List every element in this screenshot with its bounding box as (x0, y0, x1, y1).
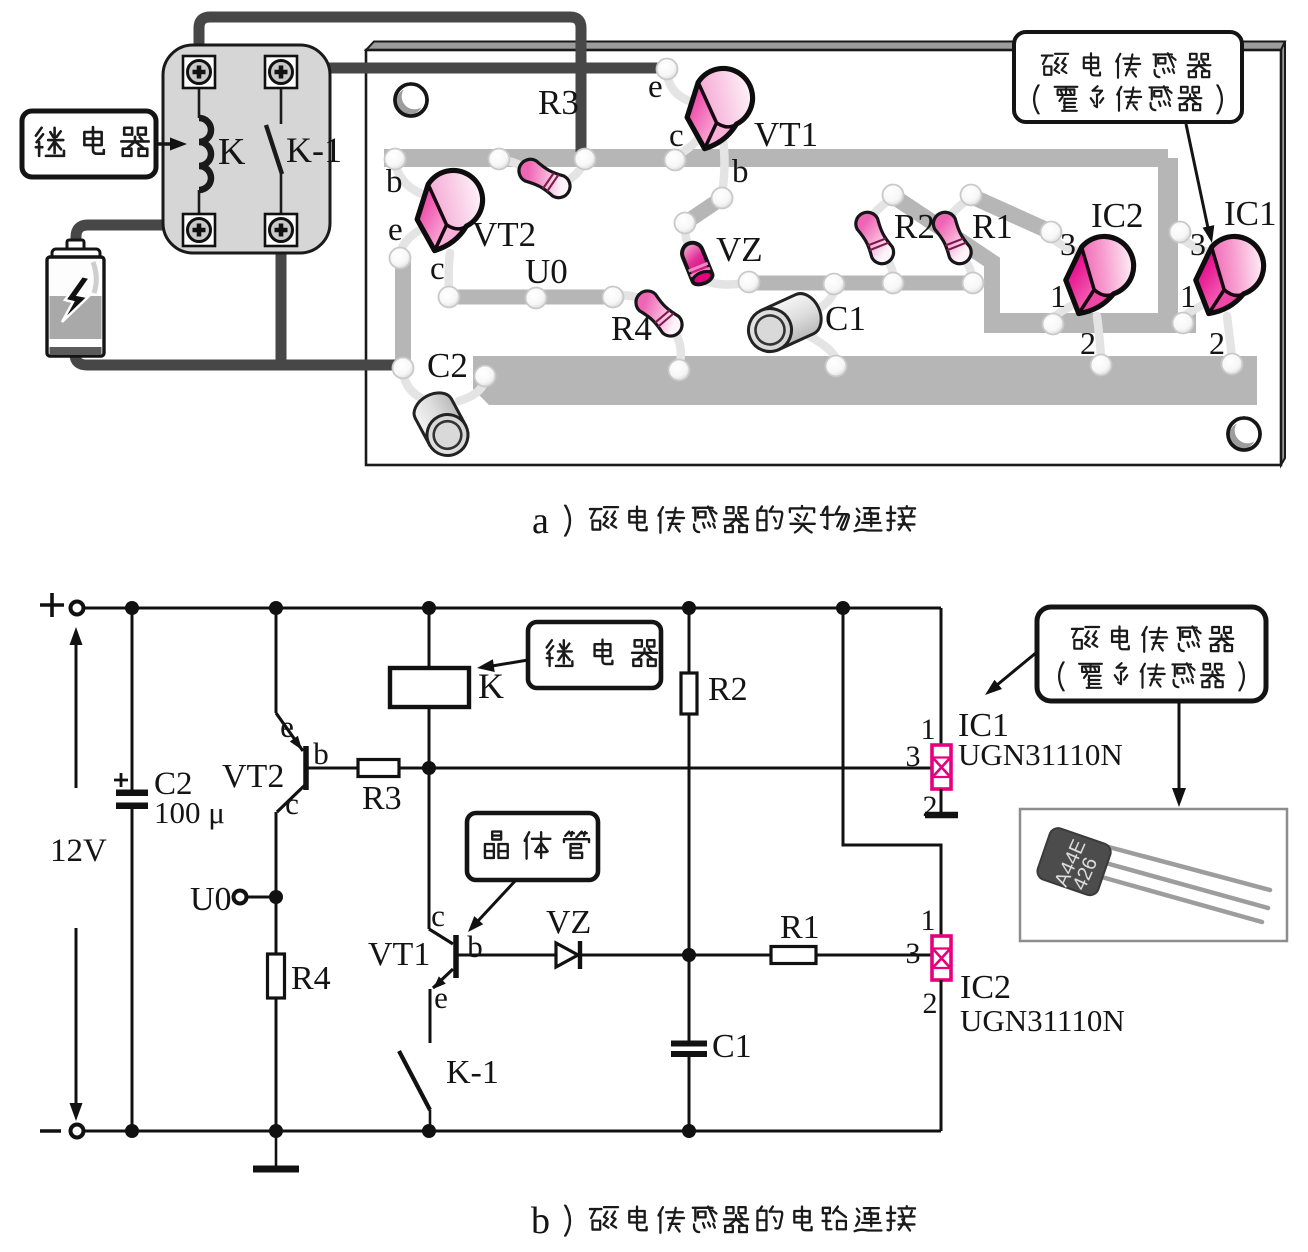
svg-text:e: e (388, 212, 403, 248)
svg-text:K-1: K-1 (286, 130, 342, 170)
svg-text:K: K (478, 666, 504, 706)
svg-text:U0: U0 (525, 252, 568, 291)
svg-text:UGN31110N: UGN31110N (958, 737, 1123, 772)
svg-text:K-1: K-1 (446, 1054, 499, 1091)
svg-text:R4: R4 (291, 960, 331, 997)
svg-text:e: e (648, 69, 663, 105)
svg-text:C1: C1 (712, 1028, 752, 1065)
svg-text:VZ: VZ (716, 230, 763, 269)
svg-text:R3: R3 (362, 780, 402, 817)
svg-text:12V: 12V (50, 833, 107, 869)
svg-text:VT1: VT1 (368, 936, 430, 973)
svg-text:R1: R1 (780, 909, 820, 946)
svg-text:2: 2 (1080, 325, 1096, 361)
svg-text:UGN31110N: UGN31110N (960, 1003, 1125, 1038)
svg-text:2: 2 (923, 987, 938, 1020)
svg-text:R4: R4 (611, 309, 652, 348)
svg-text:c: c (430, 251, 445, 287)
svg-text:c: c (285, 786, 299, 821)
svg-text:c: c (669, 118, 684, 154)
svg-text:K: K (218, 131, 246, 173)
svg-text:c: c (431, 898, 445, 933)
svg-text:b: b (313, 736, 329, 771)
svg-text:IC2: IC2 (1091, 196, 1144, 235)
svg-text:3: 3 (906, 740, 921, 773)
svg-text:a: a (532, 500, 549, 542)
svg-text:3: 3 (906, 937, 921, 970)
svg-text:U0: U0 (190, 881, 232, 918)
svg-text:b: b (386, 164, 403, 200)
svg-text:VT2: VT2 (472, 215, 536, 254)
svg-text:1: 1 (1180, 278, 1196, 314)
svg-text:b: b (531, 1200, 550, 1242)
svg-text:b: b (732, 154, 749, 190)
svg-text:IC1: IC1 (1224, 194, 1277, 233)
svg-text:VT2: VT2 (222, 758, 284, 795)
svg-text:1: 1 (921, 713, 936, 746)
svg-text:IC2: IC2 (960, 969, 1011, 1006)
svg-text:1: 1 (921, 904, 936, 937)
svg-text:C1: C1 (825, 299, 866, 338)
svg-text:e: e (280, 709, 294, 744)
svg-text:R2: R2 (708, 671, 748, 708)
svg-text:2: 2 (1209, 325, 1225, 361)
svg-text:100 μ: 100 μ (154, 795, 225, 830)
svg-text:3: 3 (1060, 226, 1076, 262)
svg-text:R1: R1 (972, 207, 1013, 246)
svg-text:2: 2 (923, 790, 938, 823)
svg-text:1: 1 (1050, 278, 1066, 314)
svg-text:3: 3 (1190, 226, 1206, 262)
svg-text:b: b (467, 929, 483, 964)
svg-text:R3: R3 (538, 83, 579, 122)
svg-text:e: e (434, 980, 448, 1015)
svg-text:VZ: VZ (546, 904, 591, 941)
svg-text:C2: C2 (427, 346, 468, 385)
svg-text:VT1: VT1 (754, 115, 818, 154)
svg-text:R2: R2 (894, 207, 935, 246)
